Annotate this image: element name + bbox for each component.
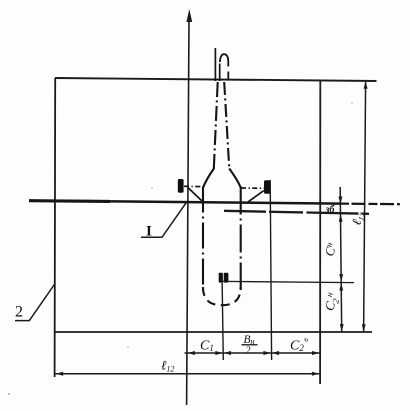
row2 right arrow [312, 372, 320, 376]
svg-text:I: I [146, 224, 152, 240]
enclosure box right edge with lower extension [319, 81, 321, 385]
inner dim arrow down at box bottom [340, 324, 344, 332]
right diagonal strut [248, 191, 264, 202]
row2 left arrow [56, 372, 64, 376]
capillary tip right dashes [227, 62, 229, 82]
svg-text:2: 2 [15, 304, 23, 321]
outer dim arrow down at bottom [362, 324, 366, 332]
bottom inner bar right [224, 273, 229, 283]
capillary tip hook arc [220, 54, 228, 62]
extension line from right blob [270, 180, 271, 360]
vessel neck left wall (phantom) [214, 82, 218, 169]
level line at vessel bottom bars [221, 281, 354, 282]
left support blob [178, 179, 184, 193]
vessel neck right wall (phantom) [224, 82, 229, 169]
row1 arrow right of C2 [312, 351, 320, 355]
inner dim arrow down at waterline [339, 197, 343, 205]
axis arrowhead [186, 9, 192, 22]
vessel right shoulder flare [229, 169, 241, 188]
capillary tip inner line [219, 64, 221, 82]
dimension line row 1 [185, 352, 321, 354]
extension line from vessel centre [222, 273, 223, 360]
fraction bar [242, 344, 258, 346]
right inner dimension line [340, 187, 342, 332]
second level line (rough dashed) [224, 211, 369, 214]
paper specks [304, 338, 306, 340]
waterline darker left segment [29, 199, 110, 203]
right outer dimension line [364, 82, 366, 332]
enclosure box left edge with lower extension [54, 78, 57, 377]
vessel rounded bottom (dashed) [203, 287, 241, 305]
enclosure box top edge with right extension [55, 78, 377, 81]
left diagonal strut [188, 188, 203, 202]
right support blob [264, 180, 271, 194]
leader line for label I [141, 202, 187, 238]
left connector (phantom) [184, 185, 203, 187]
inner dim arrow down at bars level [339, 274, 343, 282]
right connector (phantom) [241, 187, 264, 189]
vessel body right wall (phantom) [240, 187, 242, 291]
inner dim arrow up below bars level [339, 283, 343, 291]
outer dim arrow up at top [364, 81, 368, 89]
leader line for label 2 [15, 285, 54, 321]
inner dim arrow up at second line [339, 214, 343, 222]
svg-text:2: 2 [246, 346, 251, 357]
waterline (main horizontal line) [29, 201, 340, 204]
vertical axis line [187, 20, 189, 405]
enclosure box bottom edge with right extension [55, 331, 372, 333]
capillary tip outer line [214, 48, 216, 81]
row1 arrow pair at centre extension [215, 351, 223, 355]
row1 arrow left of C1 [187, 351, 195, 355]
svg-text:зб: зб [325, 205, 336, 216]
bottom inner bar left [219, 273, 223, 283]
row1 arrow pair at blob extension [263, 351, 271, 355]
dimension line row 2 [55, 373, 320, 375]
vessel left shoulder flare [203, 169, 214, 188]
vessel body left wall (phantom) [202, 187, 204, 291]
